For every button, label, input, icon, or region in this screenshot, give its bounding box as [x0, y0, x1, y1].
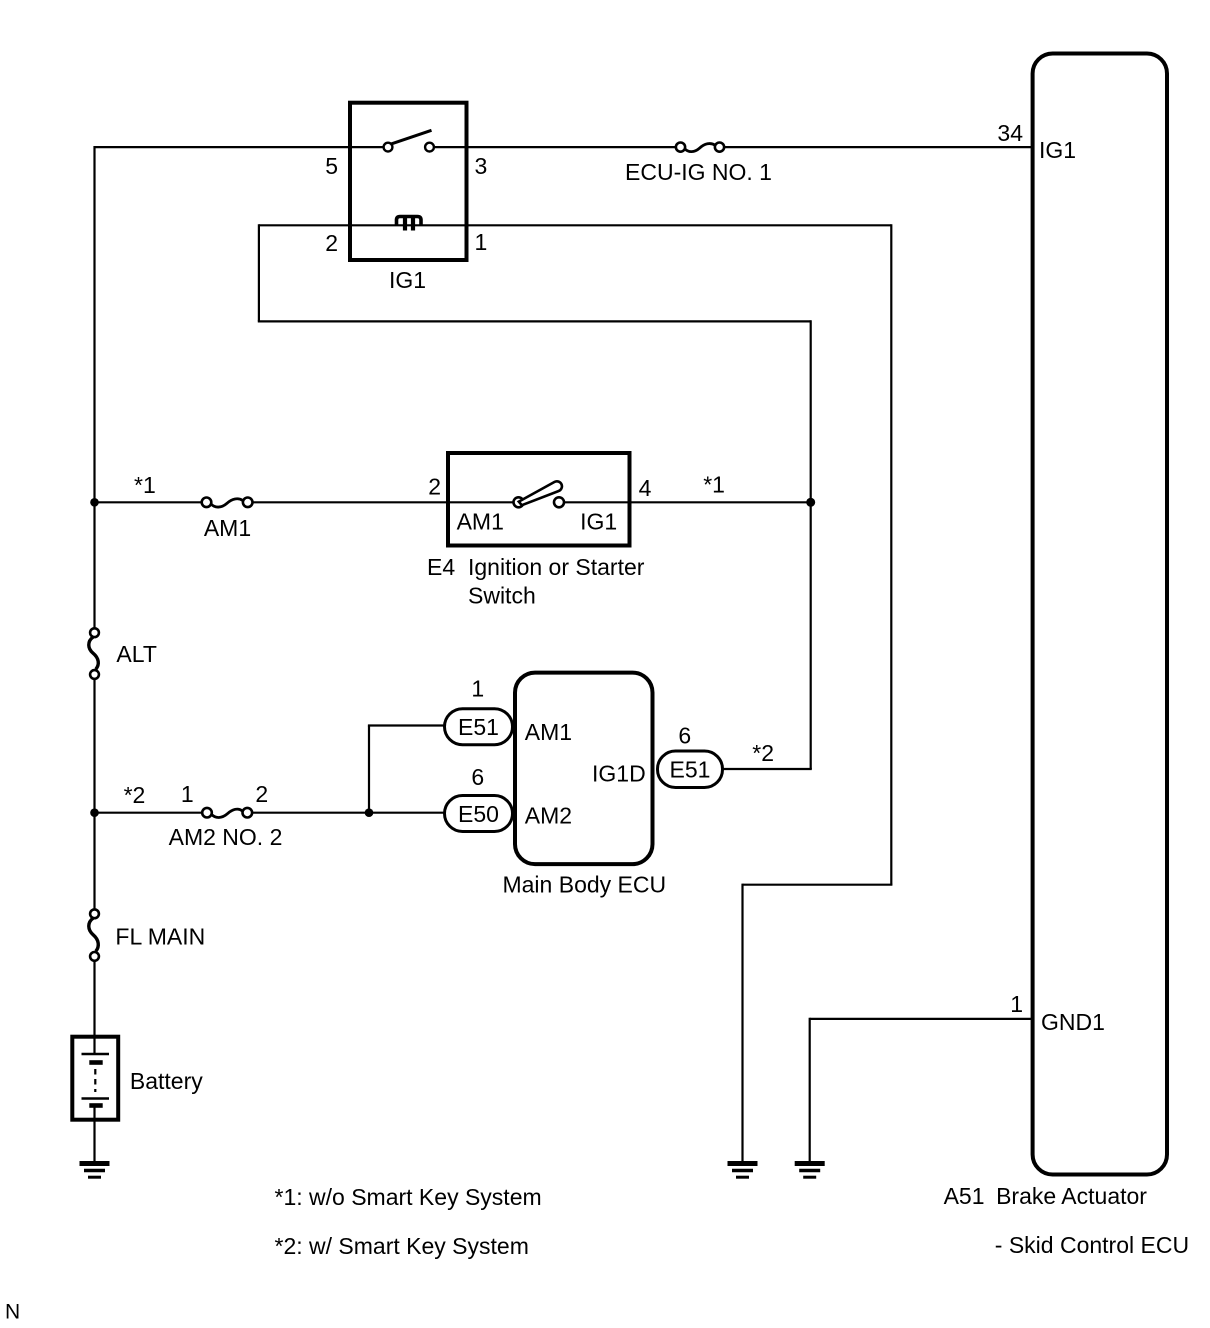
ground: GND1	[795, 1164, 825, 1178]
wire: left vertical bus upper (down to ALT)	[93, 146, 95, 629]
svg-text:GND1: GND1	[1041, 1009, 1105, 1035]
junction node *1 at x=811	[806, 498, 815, 507]
wire: horizontal y=321	[258, 320, 811, 322]
relay IG1 switch blade	[391, 130, 432, 144]
svg-text:*2: *2	[752, 740, 774, 766]
svg-text:Battery: Battery	[130, 1068, 203, 1094]
svg-text:N: N	[5, 1301, 20, 1324]
junction node at E51/E50 branch	[365, 808, 374, 817]
svg-text:ECU-IG NO. 1: ECU-IG NO. 1	[625, 159, 772, 185]
fusible link ALT	[89, 628, 99, 679]
svg-text:1: 1	[181, 781, 194, 807]
wire: left vertical bus middle (ALT to FL MAIN)	[93, 679, 95, 910]
wire: left vertical bus lower (FL MAIN to battery plate)	[93, 961, 95, 1055]
wire: AM1 line fuse-to-switch segment	[253, 501, 514, 503]
wire: branch to E51 top	[368, 724, 447, 726]
svg-text:4: 4	[639, 475, 652, 501]
wire: E51 IG1D to bus x=811	[721, 768, 812, 770]
switch E4 contact right	[554, 497, 564, 507]
svg-text:Switch: Switch	[468, 583, 536, 609]
wire: vertical bus x=811 (to *1 node and IG1D)	[810, 320, 812, 769]
svg-text:1: 1	[475, 229, 488, 255]
svg-text:6: 6	[471, 764, 484, 790]
svg-text:E51: E51	[670, 757, 711, 783]
svg-text:5: 5	[325, 153, 338, 179]
wire: battery to ground stem	[93, 1106, 95, 1162]
wire: AM2 line fuse-to-E50 segment	[252, 812, 446, 814]
svg-text:*2: w/ Smart Key System: *2: w/ Smart Key System	[275, 1233, 529, 1259]
svg-text:A51: A51	[944, 1183, 985, 1209]
junction node at AM2 tap	[90, 808, 99, 817]
svg-text:AM1: AM1	[204, 515, 251, 541]
ground: battery	[80, 1164, 110, 1178]
battery cell plates	[82, 1054, 110, 1106]
wire: AM2 line left segment	[95, 812, 203, 814]
svg-text:AM2 NO. 2: AM2 NO. 2	[169, 824, 283, 850]
fusible link FL MAIN	[89, 909, 99, 960]
svg-text:*1: *1	[703, 472, 725, 498]
switch E4 lever	[519, 481, 562, 505]
svg-text:IG1: IG1	[1039, 137, 1076, 163]
connector E50 (AM2)	[445, 796, 513, 832]
svg-text:*1: *1	[134, 472, 156, 498]
relay IG1 switch contact right	[425, 143, 434, 152]
relay IG1 switch contact left	[384, 143, 393, 152]
wire: vertical at x=259 (relay pin2 drop)	[258, 224, 260, 321]
svg-text:E51: E51	[458, 714, 499, 740]
wire: GND1 ground drop x=810	[809, 1018, 811, 1162]
wire: relay pin1 drop x=891	[890, 224, 892, 885]
connector E51 (IG1D)	[658, 751, 723, 788]
fuse ECU-IG NO. 1	[676, 143, 724, 152]
wire: AM1 line left segment	[95, 501, 203, 503]
A51 Brake Actuator - Skid Control ECU box	[1033, 54, 1167, 1175]
svg-text:2: 2	[255, 781, 268, 807]
fuse AM1	[202, 498, 253, 508]
switch E4 contact left	[514, 497, 524, 507]
wire: branch vertical x=369	[368, 726, 370, 813]
svg-text:AM1: AM1	[525, 719, 572, 745]
relay IG1 box	[350, 103, 467, 260]
svg-text:*1: w/o Smart Key System: *1: w/o Smart Key System	[275, 1184, 542, 1210]
svg-text:3: 3	[475, 153, 488, 179]
fuse AM2 NO. 2	[202, 808, 252, 818]
connector E51 (AM1)	[445, 709, 513, 745]
wire: ground drop x=742	[741, 884, 743, 1162]
wire: relay coil line y=225	[259, 224, 891, 226]
svg-text:Brake Actuator: Brake Actuator	[996, 1183, 1147, 1209]
battery box	[72, 1037, 118, 1120]
ground: main body circuit	[728, 1164, 758, 1178]
svg-text:1: 1	[1010, 991, 1023, 1017]
svg-text:- Skid Control ECU: - Skid Control ECU	[995, 1232, 1189, 1258]
wire: GND1 horizontal y=1019	[810, 1018, 1031, 1020]
wire: AM1 line switch-to-node segment	[564, 501, 811, 503]
svg-text:AM2: AM2	[525, 803, 572, 829]
svg-text:FL MAIN: FL MAIN	[115, 924, 205, 950]
svg-text:2: 2	[325, 230, 338, 256]
wire: top IG1 feed, right segment (fuse to pin 34)	[724, 146, 1032, 148]
svg-text:IG1: IG1	[580, 509, 617, 535]
svg-text:ALT: ALT	[116, 641, 156, 667]
wire: horizontal y=885	[743, 884, 893, 886]
svg-text:6: 6	[678, 723, 691, 749]
svg-text:Ignition or Starter: Ignition or Starter	[468, 554, 645, 580]
switch E4 box	[448, 453, 630, 546]
wire: top IG1 feed, left segment	[94, 146, 386, 148]
svg-text:2: 2	[428, 474, 441, 500]
Main Body ECU box U1	[515, 673, 653, 865]
svg-text:IG1D: IG1D	[592, 761, 646, 787]
svg-text:1: 1	[471, 676, 484, 702]
svg-text:AM1: AM1	[457, 509, 504, 535]
svg-text:*2: *2	[124, 782, 146, 808]
svg-text:Main Body ECU: Main Body ECU	[502, 872, 666, 898]
svg-text:E4: E4	[427, 554, 455, 580]
svg-text:E50: E50	[458, 801, 499, 827]
junction node at AM1 tap	[90, 498, 99, 507]
relay IG1 coil	[397, 217, 422, 231]
svg-text:IG1: IG1	[389, 267, 426, 293]
svg-text:34: 34	[997, 120, 1023, 146]
wire: top IG1 feed, middle segment (relay pin3 to fuse)	[433, 146, 677, 148]
